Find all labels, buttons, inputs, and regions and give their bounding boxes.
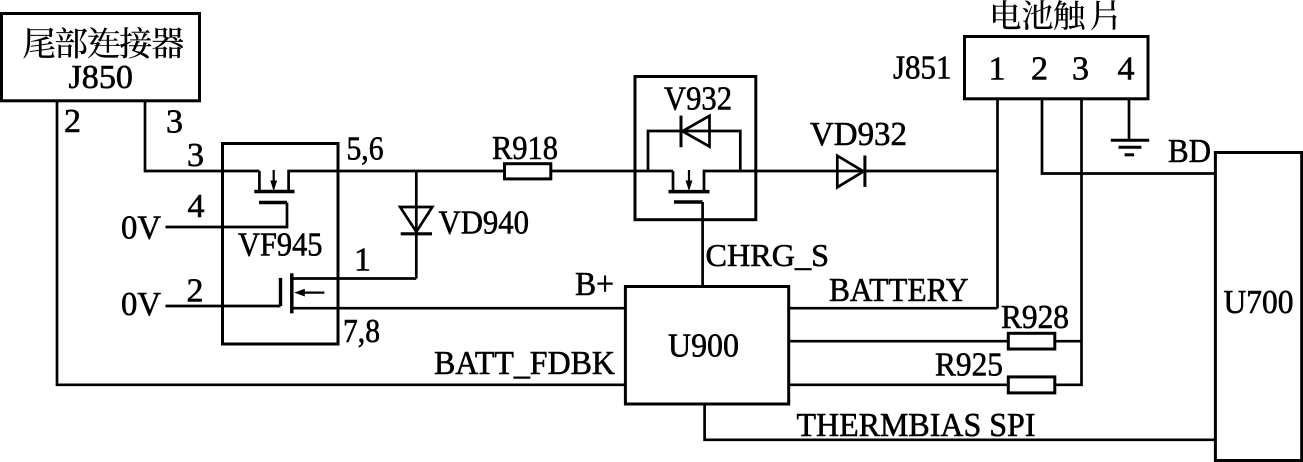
resistor R925 [1008,377,1055,393]
diode VD932 [837,156,865,188]
svg-text:3: 3 [1072,51,1089,88]
svg-text:3: 3 [166,104,183,141]
wire R918 to V932 left stub [551,170,673,173]
svg-text:B+: B+ [575,266,614,303]
VF945 top MOSFET right stub + rail to R918 [289,171,505,192]
svg-text:1: 1 [989,51,1006,88]
wire U900 to R925 [789,383,1009,386]
svg-text:0V: 0V [121,286,161,323]
VF945 bottom MOSFET arrow (left) [294,289,324,297]
VF945 bottom MOSFET gate bar [279,278,282,306]
wire J850 pin 3 to VF945 [145,100,259,171]
svg-text:VD932: VD932 [810,116,907,153]
V932 MOSFET right stub + rail to VD932/J851 [704,171,998,192]
label 电池触片 (battery contacts) [993,0,1117,30]
svg-text:BATT_FDBK: BATT_FDBK [434,345,615,382]
ground symbol [1111,140,1149,155]
resistor R928 [1008,333,1055,349]
svg-text:J850: J850 [69,59,134,96]
svg-text:U700: U700 [1224,284,1294,321]
label 尾部连接器 (tail connector) [23,27,183,59]
transistor V932 box [635,77,756,220]
connector J851 box [965,37,1149,99]
svg-text:R928: R928 [1001,299,1069,336]
wire THERMBIAS SPI U900 to U700 [705,404,1216,440]
VF945 bottom MOSFET channel bar [290,273,294,313]
svg-text:3: 3 [187,137,204,174]
svg-text:R925: R925 [935,347,1003,384]
VF945 bottom MOSFET source wire B+ to U900 [292,307,626,310]
wire J850 pin 2 vertical + BATT_FDBK horizontal [57,100,625,385]
wire VF945 pin4 gate to 0V [166,203,288,228]
svg-text:BATTERY: BATTERY [829,272,969,309]
svg-text:2: 2 [1031,51,1048,88]
svg-text:4: 4 [1118,51,1135,88]
VF945 top MOSFET left stub [258,171,261,192]
wire J851 pin 4 to ground [1128,99,1131,141]
svg-text:4: 4 [188,188,205,225]
V932 MOSFET left stub [672,171,675,192]
svg-text:2: 2 [64,103,81,140]
wire VD940 branch vertical [415,171,418,279]
wire R928 to J851 pin3 [1055,340,1082,343]
svg-text:BD: BD [1168,133,1211,170]
VF945 top MOSFET channel bar [254,190,294,194]
svg-text:R918: R918 [492,130,558,167]
wire CHRG_S gate to U900 [701,202,704,287]
wire U900 BATTERY output [789,307,998,310]
svg-text:VD940: VD940 [439,205,530,242]
V932 MOSFET arrow (down) [686,170,693,191]
svg-text:7,8: 7,8 [343,313,380,350]
svg-text:J851: J851 [893,50,952,87]
svg-text:VF945: VF945 [238,227,323,264]
VF945 bottom MOSFET drain wire to node 1 [292,277,417,280]
svg-text:THERMBIAS SPI: THERMBIAS SPI [797,407,1036,444]
IC U700 box [1215,153,1301,461]
wire J851 pin 3 to R928/R925 [1055,99,1082,385]
wire V932 body-diode loop [648,131,740,171]
svg-text:5,6: 5,6 [347,131,384,168]
wire U900 to R928 [789,340,1009,343]
transistor VF945 box [223,144,339,345]
svg-text:V932: V932 [664,81,732,118]
wire J851 pin 1 to BATTERY node [996,99,999,308]
VF945 top MOSFET gate bar [259,201,287,204]
svg-text:CHRG_S: CHRG_S [706,238,830,273]
diode V932 body (points left) [681,116,710,148]
wire 0V to VF945 pin2 gate [166,305,281,308]
diode VD940 [400,207,432,234]
wire J851 pin 2 BD to U700 [1042,99,1215,174]
svg-text:1: 1 [354,242,371,279]
IC U900 box [625,287,788,405]
connector J850 box [2,14,200,101]
svg-text:U900: U900 [668,328,739,365]
V932 MOSFET gate bar [674,200,703,203]
resistor R918 [505,164,551,179]
svg-text:0V: 0V [121,210,161,247]
svg-text:2: 2 [187,273,204,310]
VF945 top MOSFET arrow (down) [270,170,277,191]
V932 MOSFET channel bar [669,190,710,194]
